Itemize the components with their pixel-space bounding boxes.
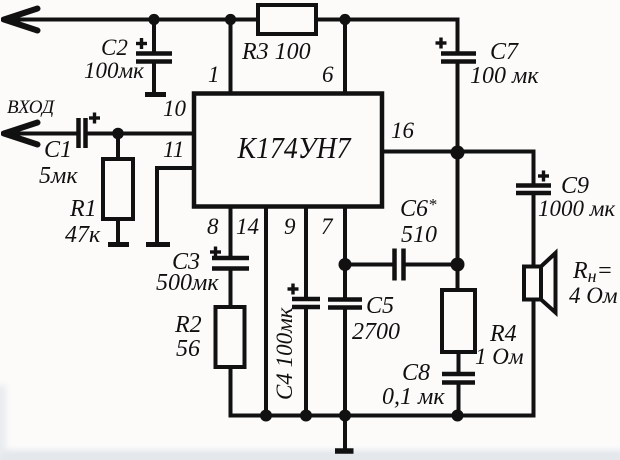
svg-text:1 Ом: 1 Ом [475, 344, 524, 369]
svg-text:5мк: 5мк [39, 163, 78, 189]
capacitor C3 [212, 258, 249, 269]
wire C6 to right branch [406, 263, 458, 267]
svg-text:100мк: 100мк [84, 58, 144, 83]
svg-text:4 Ом: 4 Ом [569, 283, 618, 308]
svg-text:1: 1 [208, 62, 220, 87]
svg-text:К174УН7: К174УН7 [237, 130, 352, 165]
arrow top-left [4, 9, 38, 31]
svg-text:R3 100: R3 100 [241, 39, 311, 65]
wire pin 16 [382, 150, 458, 154]
wire node7 to C6 [345, 263, 392, 267]
svg-text:100 мк: 100 мк [470, 63, 539, 89]
svg-text:9: 9 [284, 214, 296, 239]
node dot rail C8 [452, 410, 464, 422]
wire R2 bottom [229, 367, 233, 416]
resistor R4 [442, 290, 475, 352]
svg-text:R2: R2 [174, 312, 202, 338]
plus C2 [136, 38, 147, 49]
svg-text:C5: C5 [366, 293, 394, 319]
node dot rail 9 [300, 410, 312, 422]
capacitor C1 [79, 118, 86, 148]
resistor R3 [258, 5, 316, 34]
svg-text:14: 14 [236, 214, 259, 239]
wire node16 to C9 [458, 152, 534, 184]
wire input line [3, 132, 77, 136]
svg-text:6: 6 [322, 62, 334, 87]
svg-text:1000 мк: 1000 мк [538, 196, 615, 221]
speaker [524, 267, 541, 300]
node dot rail 14 [260, 410, 272, 422]
node dot pin1 [225, 14, 236, 25]
plus C4 [288, 284, 299, 295]
wire speaker to bottom rail [532, 300, 536, 416]
svg-text:47к: 47к [65, 222, 101, 248]
wire C7 lower to node 16 [456, 64, 460, 153]
svg-text:500мк: 500мк [156, 270, 219, 296]
op-amp U1 K174UN7 [194, 94, 382, 207]
node dot input R1 [112, 128, 124, 140]
node dot rail 7 [339, 410, 351, 422]
capacitor C6 [395, 249, 404, 281]
wire C8 to bottom rail [457, 385, 461, 416]
svg-text:ВХОД: ВХОД [7, 97, 55, 118]
wire bottom rail [231, 414, 534, 418]
svg-text:510: 510 [401, 222, 437, 248]
arrow input [4, 123, 38, 145]
resistor R2 [216, 307, 245, 367]
svg-text:7: 7 [321, 214, 334, 239]
capacitor C7 [441, 54, 476, 62]
capacitor C5 [328, 300, 362, 308]
wire ground stub bottom [343, 416, 347, 449]
capacitor C2 [136, 54, 172, 62]
node dot C6 right [451, 258, 465, 272]
ground bar bottom [335, 448, 354, 454]
svg-text:10: 10 [163, 96, 187, 121]
node dot pin6 [339, 14, 350, 25]
ground bar C2 [145, 92, 166, 97]
svg-text:R1: R1 [69, 196, 97, 222]
wire R1 bottom to ground [116, 219, 120, 242]
svg-text:C1: C1 [44, 137, 72, 163]
svg-text:C7: C7 [490, 39, 519, 65]
wire C5 to bottom rail [343, 310, 347, 416]
node dot 16 [451, 146, 465, 160]
plus C3 [210, 247, 221, 258]
svg-text:C2: C2 [101, 35, 128, 60]
svg-text:56: 56 [176, 336, 200, 362]
wire top supply rail [3, 18, 458, 22]
plus C9 [538, 171, 549, 182]
svg-text:2700: 2700 [352, 319, 400, 345]
node dot C6 left [339, 258, 352, 271]
wire pin 6 [343, 20, 347, 95]
wire C7 upper [456, 20, 460, 53]
wire R4 to C8 [457, 352, 461, 372]
wire C1 to pin 10 [89, 132, 195, 136]
svg-text:C4 100мк: C4 100мк [272, 307, 297, 400]
wire pin 9 to C4 [304, 206, 308, 297]
capacitor C4 [292, 299, 320, 307]
wire C2 stub upper [152, 20, 156, 53]
svg-text:11: 11 [163, 137, 184, 162]
wire R1 top [116, 134, 120, 160]
wire C9 to speaker [532, 195, 536, 268]
wire pin 14 [264, 206, 268, 416]
wire right branch down to R4 [456, 153, 460, 291]
ground bar R1 [108, 242, 129, 247]
svg-text:8: 8 [207, 214, 219, 239]
wire C4 to bottom rail [304, 309, 308, 416]
capacitor C8 [442, 374, 475, 383]
plus C1 [89, 113, 100, 124]
wire pin 8 to C3 [229, 206, 233, 256]
svg-text:16: 16 [391, 118, 415, 143]
wire pin 1 [229, 20, 233, 95]
resistor R1 [103, 159, 133, 219]
wire pin 7 to C5 [343, 206, 347, 298]
wire C2 stub lower [152, 64, 156, 93]
plus C7 [436, 38, 447, 49]
svg-text:C8: C8 [402, 360, 430, 386]
capacitor C9 [516, 186, 551, 194]
ground bar pin11 [146, 242, 170, 247]
node dot top C2 [148, 14, 159, 25]
svg-text:0,1 мк: 0,1 мк [382, 384, 445, 410]
wire C3 to R2 [229, 271, 233, 308]
wire pin 11 stub [157, 168, 194, 242]
